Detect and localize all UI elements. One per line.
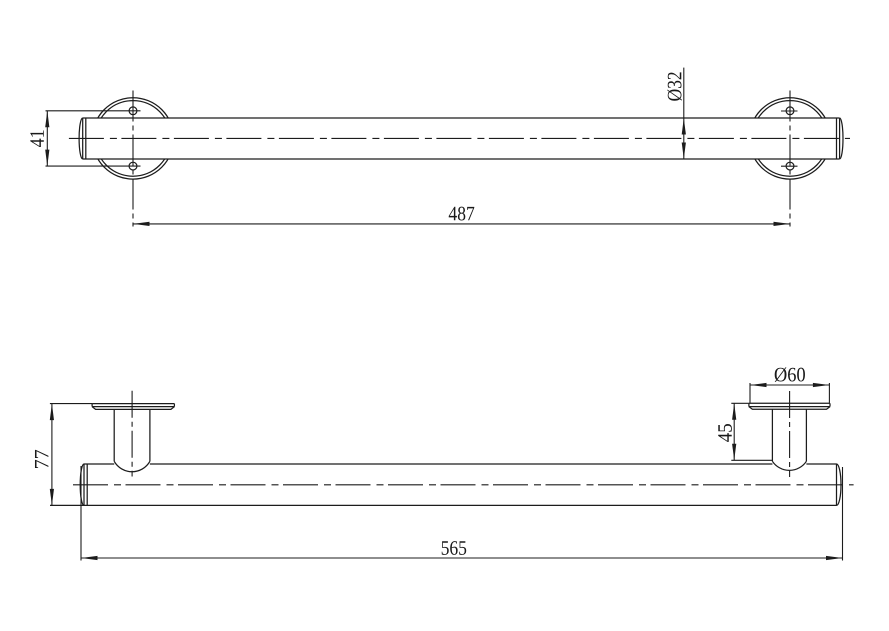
right flange vertical centerline / 487 extension: [789, 91, 791, 227]
Ø60 right extension line: [828, 383, 830, 403]
left wall plate top line: [92, 403, 174, 405]
dimension 565 arrowheads: [81, 556, 843, 560]
right wall plate top line: [749, 402, 830, 404]
Ø60 left extension line: [749, 383, 751, 403]
dimension text 41: [30, 130, 44, 147]
dimension 41 arrowheads: [45, 111, 49, 166]
grab bar tube body (top view), covers flange arcs behind it: [83, 118, 840, 159]
lower hole axis / 41 bottom extension line: [46, 165, 141, 167]
upper hole axis / 41 top extension line: [46, 110, 141, 112]
left post vertical centerline: [131, 391, 133, 477]
right flange upper screw hole: [786, 107, 794, 115]
tube top edge (top view): [83, 117, 840, 119]
dimension O32 arrowheads: [682, 118, 686, 159]
tube top edge left segment (bottom view): [84, 463, 114, 465]
left wall flange (top view) outer circle: [92, 98, 173, 179]
left wall flange inner circle: [95, 101, 171, 177]
dimension text 565: [442, 541, 467, 555]
dimension text 77: [35, 450, 48, 468]
tube right end cap line: [836, 464, 838, 505]
dimension O60 arrowheads: [750, 383, 829, 387]
tube left end inner line: [85, 118, 87, 159]
dimension text 45: [718, 424, 732, 442]
dimension 487 arrowheads: [133, 222, 790, 226]
tube left end cap line: [83, 464, 85, 505]
dimension 487: [133, 223, 790, 225]
top view horizontal centerline: [69, 137, 850, 139]
right wall plate bottom line with chamfers: [749, 407, 830, 410]
left wall plate left edge: [91, 404, 93, 407]
tube right end cap line: [839, 118, 841, 159]
tube left end dome arc: [79, 118, 83, 159]
dimension 77: [50, 404, 92, 506]
dimension 77 arrowheads: [50, 404, 54, 506]
tube bottom edge (bottom view): [50, 504, 837, 506]
565 left extension line: [80, 466, 82, 561]
45 bottom extension line: [731, 459, 772, 461]
dimension 45: [731, 403, 772, 460]
right wall flange inner circle: [752, 101, 828, 177]
right post vertical centerline: [789, 391, 791, 477]
tube left end dome arc: [80, 464, 84, 505]
tube right end inner line: [836, 118, 838, 159]
dimension 45 arrowheads: [732, 403, 736, 460]
tube right end dome arc: [840, 118, 843, 159]
dimension 565: [81, 466, 843, 561]
left post bottom intersection arc: [114, 461, 150, 471]
tube top edge middle segment: [150, 463, 773, 465]
dimension Ø60: [750, 383, 829, 403]
right wall flange (top view) outer circle: [749, 98, 830, 179]
left flange lower screw hole: [129, 162, 137, 170]
tube left end inner line: [86, 464, 88, 505]
right upper hole axis line: [781, 110, 798, 112]
dimension text Ø32: [667, 72, 681, 100]
dimension Ø32: [683, 68, 685, 159]
77 top extension line: [50, 403, 92, 405]
565 right extension line: [842, 467, 844, 561]
left flange upper screw hole: [129, 107, 137, 115]
left flange vertical centerline / 487 extension: [132, 91, 134, 227]
bottom view horizontal centerline: [73, 484, 854, 486]
dimension text 487: [449, 207, 475, 221]
right post right edge: [805, 409, 807, 461]
dimension 41: [46, 111, 48, 166]
tube right end dome arc: [837, 464, 842, 505]
right flange lower screw hole: [786, 162, 794, 170]
left wall plate bottom line with chamfers: [92, 407, 174, 410]
tube left end cap line: [82, 118, 84, 159]
right wall plate rim line: [749, 406, 830, 408]
right lower hole axis line: [781, 165, 798, 167]
right post left edge: [771, 409, 773, 461]
tube bottom edge (top view): [83, 158, 840, 160]
45 top extension line: [731, 402, 749, 404]
left wall plate right edge: [173, 404, 175, 407]
left post right edge: [149, 409, 151, 461]
right wall plate left edge: [748, 403, 750, 406]
right wall plate right edge: [829, 403, 831, 406]
dimension text Ø60: [775, 367, 805, 381]
tube top edge right segment: [806, 463, 836, 465]
left post left edge: [113, 409, 115, 461]
left wall plate rim line: [92, 406, 174, 408]
right post bottom intersection arc: [772, 461, 806, 470]
